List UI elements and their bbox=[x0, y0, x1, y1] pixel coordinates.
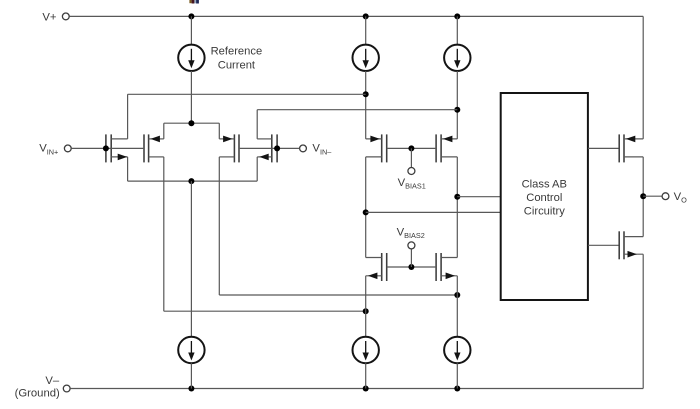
junction wire B into right cascode column bbox=[454, 107, 460, 113]
junction on V- rail below tail current source bbox=[188, 386, 194, 392]
terminal V- (Ground) bbox=[63, 385, 70, 392]
wire box to output NMOS gate bbox=[588, 244, 619, 246]
wire V_IN+ to Q1/Q2 gates bbox=[71, 147, 144, 149]
svg-text:Class AB: Class AB bbox=[522, 178, 567, 190]
wire output node to terminal bbox=[643, 195, 662, 197]
wire left current source to cascode Q5 source bbox=[365, 71, 367, 139]
wire V- rail up to output NMOS source bbox=[642, 254, 644, 388]
current source I4 (bottom left-center) bbox=[178, 337, 204, 363]
wire N-pair tail horizontal bbox=[128, 180, 258, 182]
wire Q5-Q6 gates to V_BIAS1 bbox=[387, 147, 436, 149]
wire Q5 drain down left column bbox=[365, 157, 367, 258]
terminal V_O bbox=[662, 193, 669, 200]
svg-text:Control: Control bbox=[526, 192, 562, 204]
transistor Q3 (PMOS input, V_IN-) bbox=[233, 134, 235, 162]
wire right current source top lead bbox=[456, 16, 458, 44]
wire reference current to P-pair tail bbox=[190, 71, 192, 123]
svg-text:Reference: Reference bbox=[211, 46, 263, 58]
junction V_IN+ at Q1 gate bbox=[103, 145, 109, 151]
wire Q7-Q8 gates to V_BIAS2 bbox=[387, 266, 436, 268]
block U1 Class AB Control Circuitry bbox=[501, 93, 588, 300]
svg-text:Current: Current bbox=[218, 60, 256, 72]
wire V+ rail down to output PMOS source bbox=[642, 16, 644, 138]
transistor Q1 (NMOS input, V_IN+) bbox=[110, 134, 112, 162]
junction on V- rail below left current source bbox=[363, 386, 369, 392]
junction on V+ rail at left current source bbox=[363, 13, 369, 19]
wire 2 (left column to Class AB box) bbox=[366, 211, 501, 213]
junction on V- rail below right current source bbox=[454, 386, 460, 392]
transistor Q7 (lower cascode left) bbox=[381, 253, 383, 281]
transistor Q10 (output NMOS) bbox=[623, 231, 625, 259]
terminal V+ bbox=[62, 13, 69, 20]
wire V- rail bbox=[70, 388, 643, 390]
wire V_BIAS1 stub bbox=[410, 148, 412, 167]
transistor Q9 (output PMOS) bbox=[623, 134, 625, 162]
wire left current source top lead bbox=[365, 16, 367, 44]
wire Q1 drain up bbox=[127, 94, 129, 139]
wire Q6 drain down right column bbox=[456, 157, 458, 258]
wire Q3 drain across to lower-right cascode source bbox=[219, 294, 457, 296]
wire Q2 drain down bbox=[163, 157, 165, 311]
wire Q3 source up to tail bbox=[218, 123, 220, 139]
junction on V+ rail at reference current bbox=[188, 13, 194, 19]
wire reference current top lead bbox=[190, 16, 192, 44]
svg-text:V–: V– bbox=[45, 375, 60, 387]
wire Q4 source down to N tail bbox=[256, 157, 258, 181]
transistor Q6 (upper cascode right) bbox=[440, 134, 442, 162]
wire Q8 source down to right bottom current source bbox=[456, 276, 458, 337]
transistor Q5 (upper cascode left) bbox=[381, 134, 383, 162]
junction V_BIAS1 node bbox=[408, 145, 414, 151]
wire V+ rail bbox=[69, 15, 643, 17]
figure caption fragment (cropped) bbox=[189, 0, 199, 4]
wire 1 (right column to Class AB box) bbox=[457, 196, 500, 198]
wire Q1 source down to N tail bbox=[127, 157, 129, 181]
junction output node bbox=[640, 193, 646, 199]
svg-text:Circuitry: Circuitry bbox=[524, 205, 565, 217]
wire A (Q1 drain to left cascode column) bbox=[128, 93, 366, 95]
terminal V_IN+ bbox=[64, 145, 71, 152]
terminal V_BIAS2 bbox=[408, 242, 415, 249]
junction wire 1 tap on right column bbox=[454, 194, 460, 200]
current source I3 bbox=[444, 45, 470, 71]
wire I4 to V- rail bbox=[190, 363, 192, 388]
wire I5 to V- rail bbox=[365, 363, 367, 388]
junction on V+ rail at right current source bbox=[454, 13, 460, 19]
junction Q3 drain at right column bbox=[454, 292, 460, 298]
junction N-pair tail bbox=[188, 178, 194, 184]
wire Q2 source up to tail bbox=[163, 123, 165, 139]
transistor Q2 (PMOS input, V_IN+) bbox=[148, 134, 150, 162]
terminal V_IN- bbox=[300, 145, 307, 152]
junction wire 2 tap on left column bbox=[363, 209, 369, 215]
wire Q2 drain across to lower-left cascode source bbox=[164, 310, 366, 312]
wire box to output PMOS gate bbox=[588, 147, 619, 149]
wire P-pair tail horizontal bbox=[164, 122, 220, 124]
wire right current source to cascode Q6 source bbox=[456, 71, 458, 139]
svg-text:(Ground): (Ground) bbox=[15, 388, 60, 400]
junction wire A into left cascode column bbox=[363, 91, 369, 97]
wire Q9 drain down to output node bbox=[642, 157, 644, 237]
wire Q4 drain up bbox=[256, 110, 258, 139]
wire Q3 drain down bbox=[218, 157, 220, 295]
transistor Q8 (lower cascode right) bbox=[440, 253, 442, 281]
wire V_IN- to Q3/Q4 gates bbox=[239, 147, 300, 149]
current source I1 (reference current) bbox=[178, 45, 204, 71]
wire I6 to V- rail bbox=[456, 363, 458, 388]
current source I2 bbox=[353, 45, 379, 71]
transistor Q4 (NMOS input, V_IN-) bbox=[271, 134, 273, 162]
wire V_BIAS2 stub bbox=[410, 249, 412, 267]
junction V_IN- at Q4 gate bbox=[274, 145, 280, 151]
junction V_BIAS2 node bbox=[408, 264, 414, 270]
junction P-pair tail bbox=[188, 120, 194, 126]
wire Q7 source down to left bottom current source bbox=[365, 276, 367, 337]
wire N tail down to bottom current source bbox=[190, 181, 192, 337]
wire B (Q4 drain to right cascode column) bbox=[257, 109, 457, 111]
terminal V_BIAS1 bbox=[408, 168, 415, 175]
current source I5 (bottom middle) bbox=[353, 337, 379, 363]
current source I6 (bottom right) bbox=[444, 337, 470, 363]
svg-text:V+: V+ bbox=[42, 11, 57, 23]
junction Q2 drain at left column bbox=[363, 308, 369, 314]
